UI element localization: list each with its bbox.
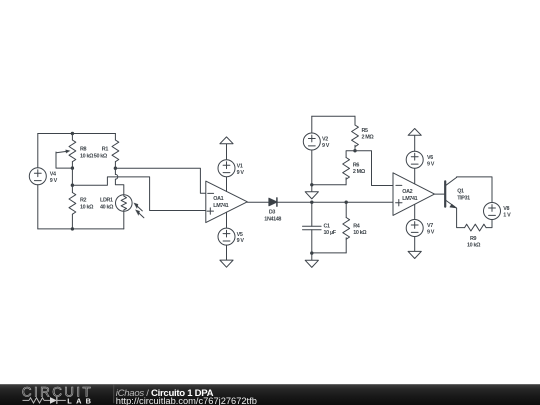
svg-text:V5: V5 xyxy=(237,232,243,238)
node R8 bottom xyxy=(71,166,74,169)
svg-text:V7: V7 xyxy=(427,223,433,229)
svg-text:10 kΩ: 10 kΩ xyxy=(353,230,367,236)
wire R9 to V8 bottom xyxy=(486,220,492,228)
resistor R5 xyxy=(352,116,359,151)
svg-text:LM741: LM741 xyxy=(402,196,417,202)
svg-text:40 kΩ: 40 kΩ xyxy=(100,204,114,210)
node C1 tap xyxy=(310,201,313,204)
svg-text:LAB: LAB xyxy=(67,396,91,405)
svg-text:OA2: OA2 xyxy=(402,189,412,195)
node R4 tap xyxy=(345,201,348,204)
node flag down C1 ground xyxy=(305,253,318,267)
logo squiggle resistor and diode xyxy=(23,397,66,404)
node flag up V1 xyxy=(220,137,233,144)
voltage source V6 xyxy=(406,135,423,184)
wire V4 top to rail xyxy=(37,134,39,168)
svg-text:R6: R6 xyxy=(353,162,360,168)
node R5 bottom xyxy=(353,149,356,152)
svg-text:9 V: 9 V xyxy=(50,178,58,184)
svg-text:10 µF: 10 µF xyxy=(324,230,337,236)
wire bottom rail xyxy=(38,228,124,230)
svg-text:1N4148: 1N4148 xyxy=(264,216,281,222)
svg-text:9 V: 9 V xyxy=(237,170,245,176)
resistor R6 xyxy=(343,158,350,185)
svg-text:R2: R2 xyxy=(80,198,87,204)
svg-text:50 kΩ: 50 kΩ xyxy=(94,153,108,159)
wire OA2 output to Q1 base xyxy=(435,193,446,195)
svg-text:OA1: OA1 xyxy=(213,196,223,202)
svg-text:9 V: 9 V xyxy=(427,230,435,236)
resistor R4 xyxy=(343,202,350,253)
wire D3 to OA2 xyxy=(277,201,393,203)
node flag down V7 xyxy=(408,251,421,258)
svg-text:R1: R1 xyxy=(102,147,109,153)
op-amp OA2 xyxy=(393,173,435,216)
capacitor C1 xyxy=(303,202,322,253)
svg-text:10 kΩ: 10 kΩ xyxy=(80,153,94,159)
wire R4 to C1 bottom xyxy=(312,252,346,254)
svg-text:9 V: 9 V xyxy=(322,143,330,149)
svg-text:V4: V4 xyxy=(50,171,56,177)
svg-text:2 MΩ: 2 MΩ xyxy=(362,135,375,141)
diode D3 xyxy=(269,198,277,206)
node C1 bottom xyxy=(310,251,313,254)
svg-text:Q1: Q1 xyxy=(457,189,464,195)
svg-text:V6: V6 xyxy=(427,155,433,161)
svg-text:R5: R5 xyxy=(362,128,369,134)
node top rail junction xyxy=(71,132,74,135)
svg-text:10 kΩ: 10 kΩ xyxy=(80,204,94,210)
svg-text:R8: R8 xyxy=(80,147,87,153)
voltage source V7 xyxy=(406,205,423,252)
voltage source V4 xyxy=(29,168,46,185)
node flag down V5 xyxy=(220,260,233,267)
svg-text:10 kΩ: 10 kΩ xyxy=(467,243,481,249)
svg-text:2 MΩ: 2 MΩ xyxy=(353,169,366,175)
wire R5 to R6 xyxy=(346,151,355,158)
resistor R8 (potentiometer) xyxy=(56,134,76,169)
wire top rail xyxy=(38,133,116,135)
voltage source V1 xyxy=(218,144,235,192)
svg-text:D3: D3 xyxy=(269,210,276,216)
resistor R9 xyxy=(465,224,486,231)
svg-text:LM741: LM741 xyxy=(213,203,228,209)
svg-text:C1: C1 xyxy=(324,223,331,229)
wire R1 to LDR1 with hop xyxy=(114,168,116,174)
node flag up V6 xyxy=(408,129,421,136)
svg-text:R4: R4 xyxy=(353,223,360,229)
wire R1 node to OA1 inverting input xyxy=(115,168,205,193)
svg-text:9 V: 9 V xyxy=(237,238,245,244)
svg-text:R9: R9 xyxy=(470,236,477,242)
wire R5 node to OA2 inverting input xyxy=(355,151,393,186)
resistor R2 xyxy=(69,185,76,229)
svg-text:1 V: 1 V xyxy=(503,213,511,219)
voltage source V5 xyxy=(218,212,235,260)
wire V2 top to R5 xyxy=(312,115,355,117)
svg-text:http://circuitlab.com/c767j276: http://circuitlab.com/c767j27672tfb xyxy=(116,396,257,405)
voltage source V8 xyxy=(484,203,501,220)
node R1 bottom xyxy=(114,167,117,170)
photoresistor LDR1 xyxy=(116,195,144,218)
wire OA1 output xyxy=(247,201,269,203)
wire R8 to bridge node xyxy=(71,168,73,185)
wire Q1 emitter to R9 xyxy=(457,208,465,228)
wire LDR1 bottom xyxy=(123,211,125,229)
wire Q1 collector to V8 xyxy=(457,177,492,203)
svg-text:TIP31: TIP31 xyxy=(457,195,470,201)
op-amp OA1 xyxy=(206,181,248,223)
footer separator xyxy=(112,385,115,404)
transistor Q1 xyxy=(445,177,456,208)
node flag down V2 ground xyxy=(305,185,318,199)
resistor R1 xyxy=(112,134,119,169)
svg-text:LDR1: LDR1 xyxy=(100,198,113,204)
wire bridge node to OA1 non-inverting input xyxy=(72,177,205,211)
wire V4 bottom xyxy=(37,185,39,229)
node V2 bottom xyxy=(310,183,313,186)
node bridge left mid xyxy=(71,184,74,187)
svg-text:V8: V8 xyxy=(503,206,509,212)
svg-text:V2: V2 xyxy=(322,137,328,143)
node bottom rail junction xyxy=(71,227,74,230)
svg-text:9 V: 9 V xyxy=(427,161,435,167)
voltage source V2 xyxy=(303,116,320,185)
wire R6 to V2 bottom node xyxy=(312,184,346,186)
svg-text:V1: V1 xyxy=(237,163,243,169)
